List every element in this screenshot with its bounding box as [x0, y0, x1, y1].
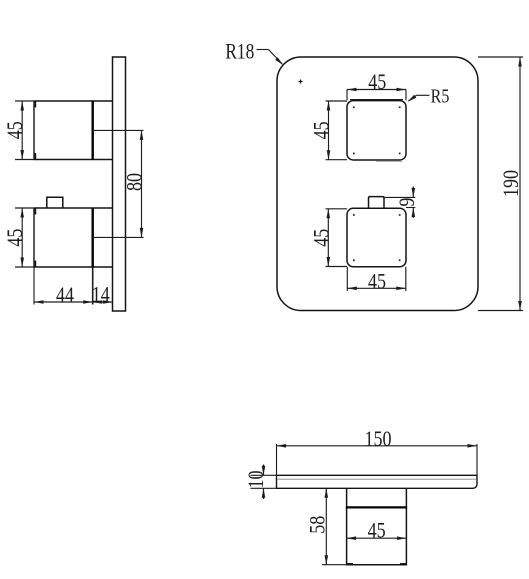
svg-text:45: 45 — [3, 121, 27, 139]
front view: dim 45 (lower square width) label — [368, 270, 386, 294]
svg-text:45: 45 — [310, 121, 334, 139]
left view: top knob body — [34, 101, 113, 160]
front view: R5 label — [431, 85, 450, 107]
front view: dim 45 (lower square width) dimension line — [347, 287, 406, 291]
svg-text:45: 45 — [368, 270, 386, 294]
front view: lower square fillet centre marks — [353, 214, 401, 261]
front view: top square knob (45x45 R5) — [347, 100, 406, 162]
svg-text:190: 190 — [500, 170, 524, 197]
bottom view: plate section bar — [277, 475, 478, 488]
bottom view: dim 45 (knob width) label — [368, 519, 386, 543]
svg-text:10: 10 — [245, 470, 269, 488]
svg-text:9: 9 — [395, 198, 419, 207]
bottom view: plate face tangent line — [278, 478, 477, 480]
left view: dim 45 (top knob) dimension line — [20, 101, 24, 160]
bottom view: dim 58 dimension line — [325, 488, 329, 564]
front view: dim 45 (lower square width) extension lines — [347, 267, 406, 291]
left view: dim 44 dimension line — [34, 300, 93, 304]
svg-text:45: 45 — [310, 229, 334, 247]
front view: R18 label — [225, 39, 254, 63]
bottom view: dim 10 dimension line and arrows — [262, 465, 266, 500]
bottom view: knob neck/body division (bold) — [346, 506, 407, 508]
svg-text:14: 14 — [92, 283, 110, 307]
front view: dim 9 extension lines — [384, 197, 415, 207]
front view: dim 9 label — [395, 198, 419, 207]
left view: lower knob body — [34, 208, 113, 267]
bottom view: dim 45 (knob width) dimension line — [347, 536, 407, 540]
front view: dim 9 dimension line and arrows — [412, 187, 416, 219]
left view: dim 14 dimension line — [93, 300, 113, 304]
front view: dim 45 (top square width) extension lines — [347, 90, 406, 101]
bottom view: dim 150 dimension line — [277, 444, 478, 448]
front view: lower square knob (45x45 R5) — [347, 208, 406, 266]
svg-text:44: 44 — [56, 283, 74, 307]
front view: dim 45 (top square height) dimension line — [327, 101, 331, 160]
svg-text:58: 58 — [306, 516, 330, 534]
front view: dim 45 (top square height) label — [310, 121, 334, 139]
left view: dim 80 dimension line — [140, 130, 144, 237]
left view: top knob face corner fillets — [34, 102, 36, 160]
bottom view: knob section outline — [347, 488, 407, 564]
left view: lower knob body/neck division (bold) — [91, 208, 93, 268]
svg-text:45: 45 — [368, 519, 386, 543]
left view: dim 45 (top knob) extension lines — [15, 101, 34, 160]
front view: top square fillet centre marks — [353, 106, 401, 154]
front view: face plate (rounded rect R18) — [277, 57, 478, 311]
bottom view: dim 58 label — [306, 516, 330, 534]
front view: dim 190 dimension line — [518, 57, 522, 311]
bottom view: dim 150 label — [364, 428, 391, 452]
bottom view: knob bottom corner fillets — [347, 563, 406, 565]
left view: dim 14 label — [92, 283, 110, 307]
front view: dim 45 (lower square height) label — [310, 229, 334, 247]
bottom view: dim 58 extension line — [322, 564, 347, 566]
left view: dim 80 label — [123, 173, 147, 191]
front view: dim 190 label — [500, 170, 524, 197]
front view: dim 45 (top square width) label — [368, 70, 386, 94]
bottom view: dim 150 extension lines — [277, 444, 478, 475]
left view: mounting plate (side) — [113, 57, 126, 311]
left view: dim 45 (lower knob) label — [3, 229, 27, 247]
front view: dim 45 (top square height) extension lines — [326, 101, 348, 160]
front view: dim 45 (lower square height) dimension line — [327, 209, 331, 267]
bottom view: dim 10 label — [245, 470, 269, 488]
front view: dim 45 (top square width) dimension line — [347, 88, 406, 92]
front view: dim 190 extension lines — [478, 57, 523, 311]
left view: lower knob face corner fillets — [34, 209, 36, 267]
left view: dim 44 label — [56, 283, 74, 307]
front view: R18 leader line — [257, 50, 284, 66]
front view: indicator nub on lower knob — [369, 197, 385, 209]
left view: dim 45 (top knob) label — [3, 121, 27, 139]
left view: dim 44/14 extension lines — [34, 267, 93, 305]
left view: dim 45 (lower knob) extension lines — [15, 208, 34, 267]
svg-text:45: 45 — [368, 70, 386, 94]
left view: top knob body/neck division (bold) — [91, 101, 93, 160]
svg-text:80: 80 — [123, 173, 147, 191]
svg-text:45: 45 — [3, 229, 27, 247]
svg-text:150: 150 — [364, 428, 391, 452]
svg-text:R18: R18 — [225, 39, 254, 63]
left view: knob centre extension lines — [93, 130, 144, 237]
front view: dim 45 (lower square height) extension lines — [326, 209, 348, 267]
left view: dim 45 (lower knob) dimension line — [20, 208, 24, 267]
bottom view: dim 10 extension lines — [251, 475, 277, 488]
svg-text:R5: R5 — [431, 85, 450, 107]
left view: indicator nub on lower knob — [47, 197, 63, 208]
front view: R18 radius centre mark — [299, 80, 303, 84]
front view: R5 leader line — [408, 95, 430, 102]
